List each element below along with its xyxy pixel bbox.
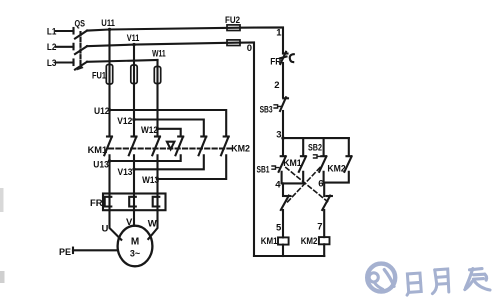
relay FR contact cross tick: [280, 57, 287, 59]
svg-text:PE: PE: [59, 247, 71, 258]
watermark char yue: [431, 269, 450, 294]
svg-text:W12: W12: [141, 125, 158, 136]
wire phase U top (QS to right corner): [87, 28, 240, 31]
wire motor lead U: [110, 210, 122, 240]
contact KM2 main 3 tick: [224, 135, 229, 137]
node W12 junction: [156, 127, 159, 130]
button SB1 NC blade: [322, 196, 330, 210]
wire L2 lead: [56, 46, 74, 48]
button SB2 NO blade: [319, 156, 326, 171]
linkage dashed SB1-SB2 cross 1: [286, 168, 328, 202]
motor M circle: [118, 226, 153, 267]
svg-text:7: 7: [317, 222, 322, 233]
wire phase V top (QS to right corner): [87, 43, 240, 47]
button SB3 contact tick: [283, 97, 288, 99]
watermark char ri: [406, 273, 422, 295]
wire motor lead W: [148, 210, 157, 239]
wire phase U top right segment: [240, 27, 283, 53]
switch QS pole 3 blade: [75, 62, 87, 70]
wire V12 to KM2: [134, 120, 204, 137]
wire phase W KM1 to FR: [156, 155, 158, 193]
contact KM1 main V tick: [132, 135, 137, 137]
contact KM1 main U blade: [104, 137, 112, 156]
button SB2 NC blade: [281, 196, 289, 210]
svg-text:SB2: SB2: [308, 143, 322, 154]
wire phase U KM1 to FR: [108, 155, 110, 193]
switch QS pole 1 blade: [75, 31, 87, 39]
wire KM2 coil to bottom rail: [323, 244, 325, 256]
watermark char chen: [465, 269, 490, 290]
wire W13 crossover: [158, 155, 227, 179]
svg-text:U11: U11: [101, 18, 115, 29]
relay FR heater U: [105, 197, 112, 207]
button SB1 NO tick: [281, 155, 286, 157]
button SB2 NO tick: [321, 155, 326, 157]
switch QS linkage arrow: [77, 64, 84, 71]
wire phase W top (QS to W11): [87, 60, 158, 62]
wire W drop to fuse: [156, 60, 158, 84]
wire node1 to node2: [282, 63, 284, 97]
svg-text:W11: W11: [152, 49, 166, 60]
contact KM2 main 1 blade: [176, 137, 184, 156]
relay FR contact tick: [283, 52, 288, 54]
wire node4 to SB2 NC: [282, 183, 284, 196]
contact KM1 aux blade: [299, 156, 306, 171]
wire PE: [73, 249, 118, 251]
wire motor lead V: [133, 210, 135, 226]
svg-text:3~: 3~: [130, 249, 140, 259]
svg-text:FU1: FU1: [92, 71, 107, 82]
contact KM1 main V blade: [129, 137, 137, 156]
node V11 junction: [132, 43, 135, 46]
svg-text:L3: L3: [47, 58, 57, 69]
wire phase W in FR: [156, 194, 158, 211]
node 3 junction: [281, 136, 284, 139]
wire phase U fuse to KM1 contact: [108, 84, 110, 137]
button SB2 actuator: [314, 155, 321, 158]
contact KM2 main 3 blade: [221, 137, 229, 156]
contact KM1 main W tick: [155, 135, 160, 137]
wire SB2 upper: [323, 138, 325, 156]
contact KM2 main 2 tick: [201, 135, 206, 137]
svg-text:M: M: [131, 237, 139, 248]
wire W12 to KM2: [158, 129, 181, 137]
contact KM2 aux tick: [347, 155, 352, 157]
svg-text:KM1: KM1: [261, 236, 278, 247]
wire V drop to fuse: [133, 45, 135, 84]
node PE tick: [72, 248, 74, 253]
node U11 junction: [108, 28, 111, 31]
wire KM1 aux upper: [302, 138, 304, 156]
svg-text:1: 1: [276, 28, 282, 39]
node V12 junction: [132, 118, 135, 121]
svg-text:L1: L1: [47, 27, 57, 38]
button SB3 contact blade: [280, 97, 286, 111]
coil KM1 body: [278, 237, 289, 244]
relay FR box: [103, 194, 166, 211]
contact KM2 main 1 tick: [178, 135, 183, 137]
contact KM2 aux blade: [344, 156, 351, 171]
watermark logo ring: [367, 264, 490, 296]
linkage dashed SB1-SB2 cross 2: [287, 168, 321, 204]
fuse FU2 lower body: [227, 40, 240, 46]
switch QS linkage dashed: [79, 32, 81, 64]
linkage triangle: [167, 142, 175, 150]
wire phase V in FR: [133, 194, 135, 211]
svg-text:6: 6: [318, 178, 323, 189]
wire SB1 lower to node4: [281, 172, 283, 184]
button SB1 NO blade: [279, 156, 286, 171]
relay FR contact blade: [280, 52, 286, 64]
button SB3 actuator: [274, 105, 281, 108]
svg-text:SB1: SB1: [257, 165, 271, 176]
fuse FU2 upper body: [227, 25, 240, 31]
wire L3 lead: [56, 61, 74, 63]
watermark logo inner circle: [369, 273, 378, 282]
wire L1 lead: [56, 30, 74, 32]
node L3 fixed contact tick: [72, 60, 74, 66]
svg-text:U12: U12: [94, 106, 110, 117]
svg-text:KM2: KM2: [327, 164, 345, 175]
contact KM1 main W blade: [152, 137, 160, 156]
svg-text:V12: V12: [117, 116, 132, 127]
wire U12 to KM2: [110, 110, 227, 137]
wire phase V fuse to KM1 contact: [133, 84, 135, 137]
svg-text:4: 4: [275, 180, 281, 191]
node L2 fixed contact tick: [72, 44, 74, 50]
relay FR thermal hook: [290, 54, 294, 62]
fuse FU1 phase U body: [106, 65, 112, 85]
contact KM1 aux tick: [301, 155, 306, 157]
linkage dashed KM1-KM2: [109, 147, 231, 149]
scan smudge left edge upper: [0, 188, 4, 212]
wire SB2 lower to node6: [323, 172, 325, 183]
node L1 fixed contact tick: [72, 28, 74, 34]
svg-text:U: U: [102, 224, 109, 235]
svg-text:0: 0: [247, 43, 252, 54]
button SB1 actuator: [272, 166, 279, 169]
watermark logo slash: [384, 270, 394, 287]
svg-text:2: 2: [274, 80, 279, 91]
node U12 junction: [108, 108, 111, 111]
wire U13 crossover: [110, 155, 181, 161]
wire node4 rail: [282, 182, 305, 184]
svg-text:KM2: KM2: [301, 236, 318, 247]
wire bottom rail: [254, 255, 324, 257]
svg-text:SB3: SB3: [260, 104, 273, 115]
wire control return drop: [240, 42, 254, 256]
node U13 junction: [108, 159, 111, 162]
svg-text:3: 3: [276, 129, 281, 140]
svg-text:V11: V11: [127, 33, 140, 44]
button SB2 NC tick: [285, 195, 291, 197]
contact KM1 main U tick: [107, 135, 112, 137]
wire SB1 NC to node7: [323, 210, 325, 237]
svg-text:U13: U13: [93, 160, 109, 171]
wire KM2 aux lower: [324, 172, 349, 183]
relay FR heater W: [153, 197, 160, 207]
fuse FU1 phase V body: [131, 65, 137, 84]
wire SB1 upper: [282, 138, 284, 156]
wire phase V KM1 to FR: [133, 155, 135, 193]
svg-text:W: W: [148, 219, 157, 230]
svg-text:QS: QS: [75, 19, 86, 30]
node V13 junction: [132, 168, 135, 171]
fuse FU1 phase W body: [154, 67, 160, 84]
wire KM1 coil to bottom rail: [282, 245, 284, 256]
watermark logo circle tail: [374, 282, 383, 289]
button SB1 NC tick: [326, 195, 332, 197]
node W13 junction: [156, 177, 159, 180]
coil KM2 body: [319, 237, 330, 244]
wire phase U in FR: [108, 194, 110, 211]
wire SB2 NC to node5: [282, 210, 284, 237]
wire V13 crossover: [134, 155, 204, 169]
wire node3 rail: [283, 137, 349, 139]
svg-text:FR: FR: [90, 198, 103, 209]
switch QS pole 2 blade: [75, 46, 87, 54]
contact KM2 main 2 blade: [199, 137, 207, 156]
wire U drop to fuse: [108, 30, 110, 85]
relay FR heater V: [129, 197, 136, 207]
svg-text:5: 5: [276, 222, 282, 233]
wire node6 to SB1 NC: [323, 183, 325, 196]
svg-text:V13: V13: [118, 167, 133, 178]
wire KM1 aux lower: [302, 172, 304, 184]
wire KM2 aux upper: [348, 138, 350, 156]
wire phase W fuse to KM1 contact: [156, 84, 158, 137]
svg-text:KM2: KM2: [231, 143, 250, 154]
scan smudge left edge lower: [0, 271, 5, 283]
wire node2 to node3: [282, 111, 284, 138]
